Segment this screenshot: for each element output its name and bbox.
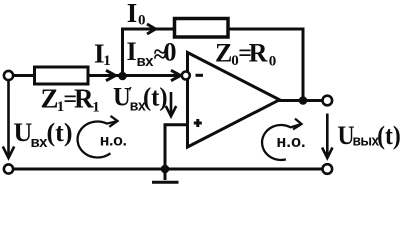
- terminal: output bottom-right: [323, 164, 333, 174]
- wire: feedback riser at node A: [121, 29, 124, 77]
- wire: non-inverting input L-shape from ground wire: [165, 125, 187, 169]
- svg-text:н.о.: н.о.: [100, 132, 127, 149]
- ground bar: [152, 181, 179, 184]
- wire: feedback drop to output node: [302, 28, 305, 101]
- svg-text:0: 0: [164, 38, 177, 67]
- arrow Uvx (left voltage arrow): [7, 81, 10, 157]
- svg-text:0: 0: [269, 54, 277, 70]
- svg-text:0: 0: [138, 13, 146, 29]
- svg-text:R: R: [249, 38, 268, 67]
- resistor Z0 (R0 box): [175, 19, 229, 38]
- wire: input from left terminal to R1: [12, 74, 34, 77]
- svg-text:I: I: [127, 37, 137, 66]
- node A junction dot: [118, 72, 127, 81]
- curved arrow n.o. left: [78, 121, 117, 157]
- svg-text:н.о.: н.о.: [276, 133, 305, 151]
- arrow Ivx (open head before op-amp input): [171, 70, 181, 80]
- label U'vx(t) middle: [113, 83, 168, 115]
- op-amp plus sign: [194, 119, 202, 127]
- arrow U'vx (middle voltage arrow): [170, 92, 173, 115]
- op-amp minus sign: [196, 74, 204, 77]
- svg-text:1: 1: [92, 100, 100, 116]
- ground stub: [164, 169, 167, 180]
- arrow I0 (open head on top wire): [147, 24, 156, 34]
- terminal: output top-right: [323, 96, 333, 106]
- op-amp inverting input circle: [182, 72, 190, 80]
- svg-text:(t): (t): [377, 122, 401, 150]
- svg-text:Z: Z: [215, 38, 232, 67]
- svg-text:вх: вх: [137, 53, 155, 70]
- wire: op-amp output to right terminal: [279, 99, 323, 102]
- svg-text:вх: вх: [31, 134, 49, 151]
- wire: top horizontal to R0: [121, 28, 173, 31]
- ground node junction dot: [161, 165, 170, 174]
- op-amp U1 triangle: [188, 53, 280, 148]
- svg-text:(t): (t): [47, 118, 73, 147]
- svg-text:вых: вых: [353, 133, 380, 150]
- wire: R1 to inverting input: [88, 74, 182, 77]
- wire: R0 to right corner: [229, 28, 303, 31]
- curved arrow n.o. right: [262, 124, 300, 160]
- label Uvyx(t) right: [338, 122, 401, 150]
- svg-text:(t): (t): [143, 83, 168, 112]
- arrow Uvyx (right voltage arrow): [326, 114, 329, 157]
- output node junction dot: [299, 96, 308, 105]
- svg-text:I: I: [127, 0, 138, 28]
- svg-text:1: 1: [103, 53, 111, 69]
- svg-text:R: R: [74, 84, 94, 114]
- wire: bottom ground rail: [13, 168, 323, 171]
- terminal: input top-left: [4, 71, 13, 80]
- resistor Z1 (R1 box): [35, 67, 89, 84]
- arrow I1 (open head on input wire): [106, 70, 116, 80]
- terminal: input bottom-left: [4, 164, 13, 173]
